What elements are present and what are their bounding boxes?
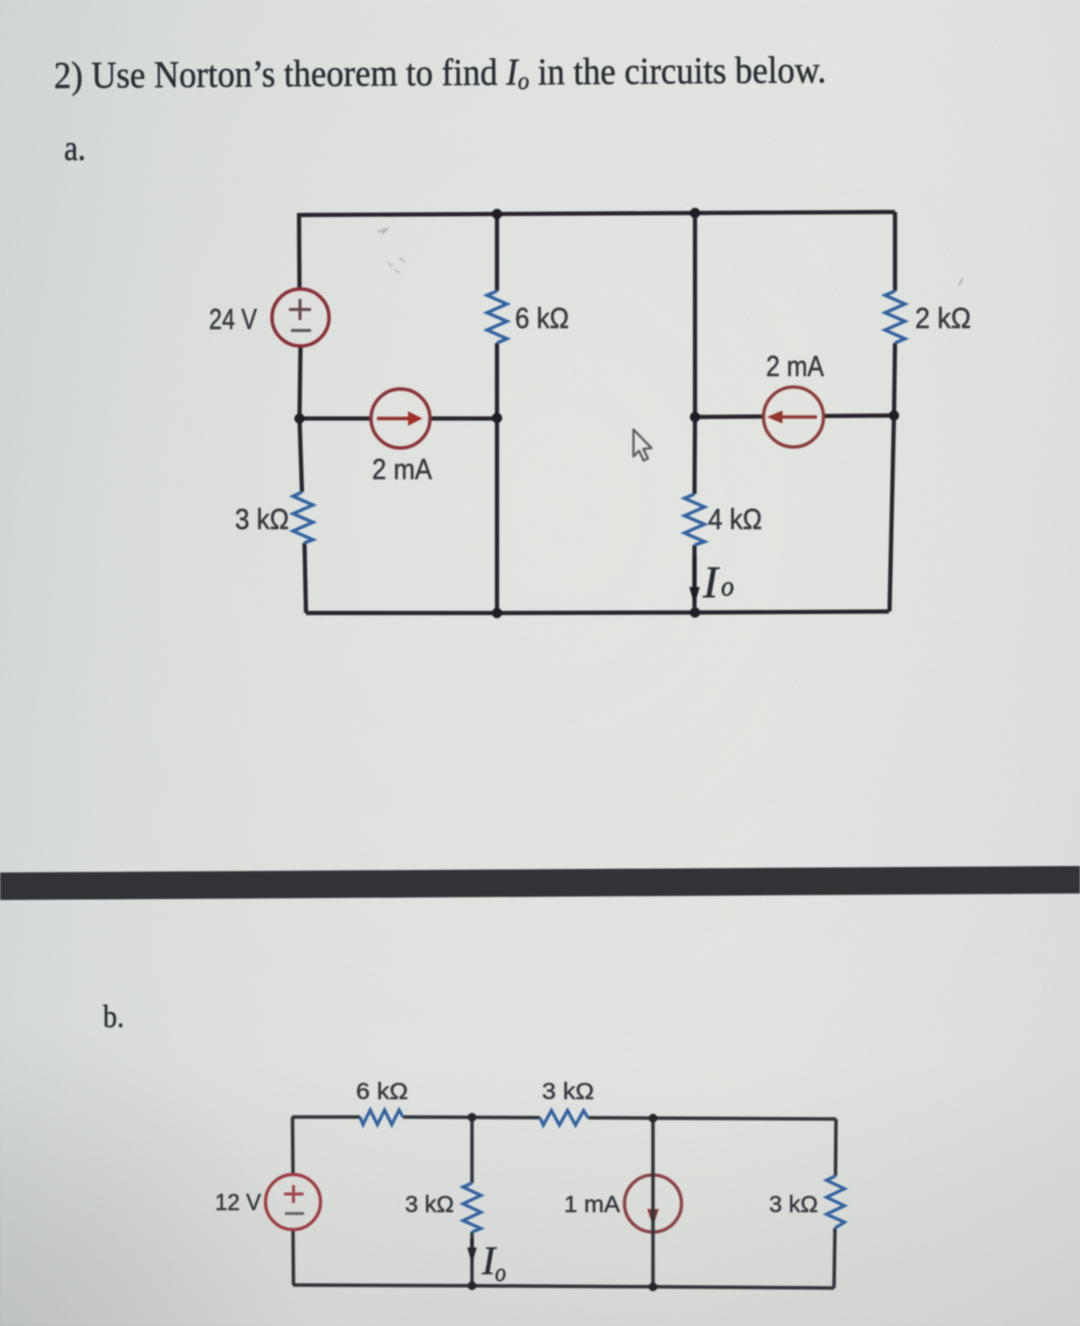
junction mid right [889, 410, 899, 420]
wire bottom (b) [293, 1285, 834, 1288]
svg-text:a.: a. [64, 129, 86, 168]
resistor 3k (b right) [827, 1176, 845, 1228]
wire 1mA verticals (b) [651, 1118, 655, 1287]
label b. [103, 998, 124, 1034]
junction b top middle [468, 1113, 477, 1122]
label 3 kOhm (b right) [769, 1191, 818, 1217]
wire middle-left vertical upper lead [495, 214, 499, 418]
svg-text:o: o [721, 572, 734, 603]
pencil smudge marks [378, 228, 405, 273]
wire right vertical lower [890, 415, 895, 612]
junction top middle-left [492, 209, 502, 219]
wire right vertical upper [894, 212, 895, 415]
wire bottom [306, 612, 889, 614]
label 2 kOhm [915, 303, 971, 335]
resistor 6k (b top) [360, 1110, 403, 1125]
svg-text:I: I [702, 558, 720, 608]
current source 2mA (left) [371, 389, 430, 448]
junction mid middle-left [492, 413, 502, 423]
junction b top 1mA [649, 1114, 658, 1123]
label Io (b) [481, 1238, 506, 1287]
label 3 kOhm (left) [235, 504, 289, 536]
label a. [64, 129, 86, 168]
label 6 kOhm (b) [356, 1078, 408, 1104]
label 6 kOhm [515, 303, 569, 335]
label 2 mA (right) [766, 351, 825, 383]
label 4 kOhm [708, 504, 762, 536]
wire middle horizontal (left 2mA branch) [299, 416, 497, 420]
wire middle vertical (b) with resistor 3k [470, 1117, 474, 1286]
voltage source 24V [272, 289, 329, 346]
current source 1mA [625, 1175, 682, 1232]
junction top middle-right [690, 208, 700, 218]
svg-text:3 kΩ: 3 kΩ [405, 1191, 454, 1217]
svg-text:6 kΩ: 6 kΩ [356, 1078, 408, 1104]
label Io (circuit a) [702, 558, 734, 608]
wire right vertical (b) with resistor 3k [834, 1119, 836, 1288]
label 1 mA [564, 1191, 620, 1217]
junction mid left [294, 413, 304, 423]
svg-text:6 kΩ: 6 kΩ [515, 303, 569, 335]
current source 2mA (right) [764, 387, 824, 447]
wire left vertical lower with resistor lead [300, 418, 307, 613]
wire middle-right vertical lower with resistor 4k [692, 417, 697, 613]
svg-text:2 mA: 2 mA [372, 454, 433, 486]
wire middle-left vertical lower [495, 418, 499, 613]
wire top [299, 212, 895, 215]
junction b bottom middle [468, 1281, 477, 1290]
mouse cursor [634, 430, 652, 461]
resistor 3k (left) [293, 492, 313, 543]
wire 2mA-right horizontal [695, 416, 894, 418]
label 24 V [209, 304, 258, 336]
resistor 3k (b top) [540, 1111, 588, 1126]
label 3 kOhm (b top) [542, 1078, 594, 1104]
svg-text:3 kΩ: 3 kΩ [769, 1191, 818, 1217]
junction mid middle-right [690, 412, 700, 422]
svg-text:3 kΩ: 3 kΩ [235, 504, 289, 536]
svg-text:2 kΩ: 2 kΩ [915, 303, 971, 335]
arrow Io (b) [467, 1238, 477, 1264]
junction b bottom 1mA [649, 1282, 658, 1291]
svg-text:4 kΩ: 4 kΩ [708, 504, 762, 536]
svg-text:2 mA: 2 mA [766, 351, 825, 383]
voltage source 12V [266, 1175, 321, 1230]
svg-text:3 kΩ: 3 kΩ [542, 1078, 594, 1104]
divider bar [0, 866, 1080, 900]
title [54, 49, 827, 99]
label 3 kOhm (b middle) [405, 1191, 454, 1217]
svg-text:24 V: 24 V [209, 304, 258, 336]
junction bottom middle-left [492, 608, 502, 618]
wire middle-right vertical upper [693, 213, 697, 417]
svg-text:1 mA: 1 mA [564, 1191, 620, 1217]
arrow Io (circuit a) [689, 556, 699, 605]
wire left vertical (b) [293, 1117, 294, 1285]
svg-text:12 V: 12 V [215, 1189, 261, 1215]
svg-text:o: o [495, 1258, 506, 1287]
label 12 V [215, 1189, 261, 1215]
stray mark near 2k [959, 278, 963, 285]
junction bottom middle-right [690, 607, 700, 617]
resistor 4k [685, 494, 705, 545]
svg-text:2) Use Norton’s theorem to fin: 2) Use Norton’s theorem to find Io in th… [54, 49, 827, 99]
resistor 3k (b middle) [463, 1183, 481, 1232]
resistor 2k [885, 291, 905, 343]
svg-text:b.: b. [103, 998, 124, 1034]
resistor 6k [487, 291, 507, 343]
wire top (b) with resistor gaps [292, 1117, 836, 1119]
wire left vertical upper [299, 213, 301, 419]
label 2 mA (left) [372, 454, 433, 486]
